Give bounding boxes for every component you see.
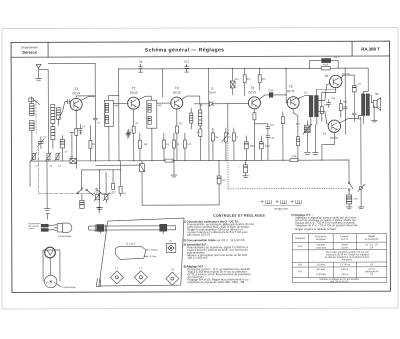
cap C29 — [352, 113, 356, 121]
cap C20 — [266, 124, 270, 132]
svg-text:pile neuve (4,5 V).: pile neuve (4,5 V). — [187, 233, 210, 237]
ground (left) — [44, 161, 50, 210]
wire MF1 to T2 base — [113, 102, 128, 104]
svg-text:170 kHz: 170 kHz — [316, 263, 326, 266]
switch contacts — [86, 189, 104, 196]
svg-text:OC71: OC71 — [287, 89, 295, 93]
svg-text:Fond Rouge: Fond Rouge — [58, 235, 72, 238]
top rail (main) — [119, 67, 368, 70]
svg-text:1 1 700 m: 1 1 700 m — [340, 263, 351, 266]
trimmer C1 — [31, 153, 37, 161]
resistor R9 — [162, 133, 165, 161]
keyhole plate — [115, 246, 148, 259]
resistor R5 — [119, 186, 122, 193]
MF3 transformer — [190, 96, 202, 129]
cap C26 — [327, 100, 331, 108]
svg-text:du C.V.: du C.V. — [341, 238, 349, 241]
wire T6 base from driver — [318, 84, 331, 101]
svg-text:Position PO: Position PO — [275, 208, 288, 211]
svg-text:C12: C12 — [184, 60, 189, 64]
on/off switch S2 — [306, 160, 353, 195]
wire T7 base — [318, 112, 329, 125]
transistor T6 — [329, 75, 341, 87]
wire T3 collector — [181, 96, 191, 100]
electrolytic C22 — [259, 136, 263, 161]
wire T4 emitter — [253, 109, 255, 160]
wire: vertical x95.5 — [94, 63, 96, 96]
capacitor C19 — [269, 93, 286, 97]
ground (C24) — [243, 176, 249, 178]
wire T6 emitter — [322, 87, 336, 106]
svg-text:C8: C8 — [139, 60, 143, 64]
electrolytic C24 (below rail) — [244, 160, 248, 176]
connector socket — [29, 98, 40, 105]
transistor T5 — [287, 97, 299, 109]
capacitor C17 — [199, 127, 202, 161]
svg-text:Service: Service — [22, 50, 37, 55]
svg-text:C21: C21 — [250, 144, 255, 148]
diode D — [194, 101, 228, 106]
ferrite antenna coil L1 — [30, 97, 37, 162]
volume potentiometer P — [222, 128, 229, 161]
electrolytic C15 — [80, 194, 84, 209]
feedthrough cap C8 — [139, 64, 143, 72]
resistors row below mid-rail: R6 — [138, 133, 141, 161]
svg-text:Fond Rouge: Fond Rouge — [62, 286, 76, 289]
resistor R3 (T1 emitter) — [75, 128, 78, 135]
svg-text:CONTROLES ET RÉGLAGES: CONTROLES ET RÉGLAGES — [213, 213, 265, 218]
svg-text:Tr1: Tr1 — [304, 91, 308, 95]
cap C10 — [126, 130, 130, 138]
dash-dot gang link vertical — [37, 142, 39, 194]
svg-text:Régler d'après le tableau suiv: Régler d'après le tableau suivant : — [295, 227, 337, 231]
svg-text:CA: CA — [370, 273, 374, 276]
svg-text:OC45: OC45 — [130, 91, 138, 95]
svg-text:T3: T3 — [175, 86, 179, 90]
resistor R12 — [183, 133, 186, 161]
wire T7 collector — [339, 115, 362, 123]
resistor R8 — [211, 128, 214, 161]
svg-text:T1: T1 — [74, 87, 78, 91]
resistor R19 — [296, 137, 299, 146]
svg-text:3Ω: 3Ω — [375, 92, 378, 96]
pointer bracket — [96, 278, 101, 287]
trimmer diamond L8 — [166, 272, 179, 285]
resistor R22 — [320, 107, 323, 122]
main frame — [11, 41, 390, 292]
driver transformer TR1 — [309, 90, 336, 125]
trimmer C3 — [46, 153, 52, 161]
resistor R23 — [339, 100, 342, 118]
trimmer C13 — [103, 193, 109, 203]
transistor T7 — [328, 120, 340, 132]
index tick 2 — [97, 207, 101, 213]
svg-text:maximum de niveau de sortie SM: maximum de niveau de sortie SM - SM1 - S… — [187, 280, 244, 284]
index tick 1 — [46, 214, 50, 220]
svg-text:CA: CA — [370, 246, 374, 249]
svg-text:OC72: OC72 — [330, 136, 338, 140]
svg-text:L5 Noir: L5 Noir — [149, 255, 156, 258]
ground (C28) — [346, 207, 352, 209]
wire vertical x95.5 down to MF1 — [94, 96, 96, 118]
wire T6 collector — [341, 75, 355, 85]
wire T4 base — [228, 103, 249, 105]
potentiometer R24 — [303, 121, 312, 152]
svg-text:Gammes: Gammes — [295, 237, 306, 240]
wire: vertical x286 from rail down — [285, 68, 287, 94]
svg-text:OA70: OA70 — [209, 90, 217, 94]
svg-text:cadran: cadran — [28, 228, 34, 230]
wire TR2 primary top — [364, 90, 368, 92]
wire: T1 top to x95.5 — [76, 96, 95, 99]
cap C4 — [78, 124, 82, 134]
svg-text:au maximum: au maximum — [365, 238, 379, 241]
wire: T2 collector — [138, 96, 151, 100]
cap C5 — [93, 118, 97, 161]
svg-text:2) Consommation totale sur 4,5: 2) Consommation totale sur 4,5 V : 11 à … — [183, 238, 245, 242]
resistor R14 — [243, 69, 246, 96]
pilot lamp — [54, 223, 72, 232]
svg-text:Schéma général — Réglages: Schéma général — Réglages — [145, 47, 225, 53]
svg-text:L4 Blanc: L4 Blanc — [149, 250, 158, 252]
trimmer C6 — [55, 152, 61, 160]
electrolytic C18 — [217, 160, 221, 205]
wire x142 cluster — [139, 161, 144, 172]
svg-text:OC71: OC71 — [248, 90, 256, 94]
band switch wires — [81, 161, 139, 208]
variable capacitor CV2 — [70, 132, 74, 158]
capacitor C30 — [343, 107, 347, 109]
wire T3 emitter — [176, 108, 178, 160]
wire: top-left rail — [48, 62, 95, 64]
wire: left vertical from antenna — [47, 70, 49, 161]
trimmer window L6 — [166, 243, 176, 252]
cord loop — [43, 250, 60, 282]
transistor T3 — [171, 97, 183, 109]
svg-text:G.O.: G.O. — [298, 264, 303, 267]
svg-text:lité) S/1 et 40 CA: lité) S/1 et 40 CA — [330, 280, 348, 283]
middle rail — [30, 159, 290, 162]
wire: x62 bottom — [75, 161, 77, 168]
trimmer diamond L1 — [110, 271, 123, 284]
ground (x174) — [171, 161, 177, 177]
battery B — [261, 200, 302, 205]
wire: vertical x163 (T3 feed) — [162, 69, 164, 97]
wire: T1 emitter down — [75, 110, 77, 161]
resistor R10 — [175, 126, 178, 133]
svg-text:R16: R16 — [292, 154, 297, 158]
svg-text:1 300 kHz: 1 300 kHz — [315, 273, 327, 276]
wire: T2 emitter down — [133, 109, 135, 161]
wire: vertical x345.5 — [344, 68, 346, 134]
speaker — [369, 95, 380, 120]
dial rod — [89, 224, 176, 234]
wire T1 base lead — [58, 102, 64, 120]
svg-text:T5: T5 — [289, 85, 293, 89]
wire T5 collector to driver transformer — [298, 96, 310, 99]
wire T7 emitter — [322, 132, 335, 160]
wire: bottom left long — [29, 161, 31, 186]
svg-text:500 m: 500 m — [342, 268, 349, 271]
svg-text:T7: T7 — [323, 132, 327, 136]
svg-text:100 à 1 000 mV.: 100 à 1 000 mV. — [187, 256, 208, 260]
resistor R4 — [89, 125, 92, 161]
svg-text:T4: T4 — [250, 86, 254, 90]
ground (switch area) — [96, 208, 102, 210]
output transformer TR2 — [362, 91, 370, 123]
svg-text:R18: R18 — [323, 63, 328, 67]
transistor T4 — [248, 97, 260, 109]
wire T4 collector to C19 — [259, 95, 269, 99]
svg-text:602 kHz: 602 kHz — [316, 268, 326, 271]
electrolytic C28 — [347, 195, 352, 207]
capacitor C16 (hanging, hatched) — [230, 69, 235, 95]
dash-dot gang link horizontal — [39, 192, 113, 194]
wire: vertical x119 (T2 collector feed) — [118, 69, 120, 161]
ground (antenna) — [36, 75, 42, 81]
svg-text:C L E F: C L E F — [126, 242, 136, 246]
chassis panel — [99, 218, 185, 286]
wire: detector out down x228 — [227, 104, 229, 133]
svg-text:OC45: OC45 — [173, 91, 181, 95]
MF2 transformer — [147, 100, 157, 161]
svg-text:RA 388 T: RA 388 T — [361, 47, 380, 52]
svg-text:P.O.: P.O. — [298, 270, 303, 273]
title bar — [11, 41, 390, 57]
thermistor (X box inline) — [70, 158, 77, 163]
electrolytic C27 — [353, 85, 357, 112]
resistor (hatched) R — [232, 128, 235, 161]
capacitor C31 — [304, 152, 310, 154]
svg-text:llocations.: llocations. — [342, 258, 353, 261]
svg-text:C19: C19 — [268, 88, 273, 92]
wire bottom return — [142, 172, 219, 205]
component value labels — [35, 78, 363, 201]
resistor R7 — [132, 126, 135, 133]
wire T5 emitter — [293, 109, 298, 161]
drive drum — [44, 275, 61, 287]
svg-text:200 m: 200 m — [342, 273, 349, 276]
resistor R14b — [112, 183, 115, 189]
pot-switch link dotted — [227, 143, 229, 189]
junction dots — [46, 68, 346, 171]
svg-text:ouvert: ouvert — [341, 246, 348, 249]
oscillator coil L2 — [51, 104, 61, 148]
table — [292, 233, 387, 282]
wire T5 base — [286, 95, 288, 103]
dial cord pulley top — [45, 247, 56, 258]
MF1 transformer — [104, 95, 119, 161]
cap C9 — [127, 129, 131, 137]
antenna — [36, 64, 48, 74]
wire: output secondary down — [360, 117, 362, 185]
svg-text:T2: T2 — [132, 86, 136, 90]
trimmer C11 — [94, 193, 100, 201]
AVC dotted line — [228, 187, 346, 189]
svg-text:C22: C22 — [265, 144, 270, 148]
svg-text:T6: T6 — [324, 74, 328, 78]
resistor R11 — [172, 133, 175, 161]
resistor R15 — [258, 68, 261, 89]
svg-text:1 620 kHz: 1 620 kHz — [315, 247, 327, 250]
wire MF2 to T3 base — [157, 102, 172, 104]
tuning capacitor CV1 — [37, 137, 44, 149]
resistor R16 (horizontal on rail) — [290, 159, 306, 162]
resistor R16b on rail — [321, 67, 330, 70]
legend text — [28, 222, 41, 230]
transistor T2 — [128, 97, 140, 109]
svg-text:du signal: du signal — [316, 238, 326, 241]
cap C7 — [60, 135, 64, 161]
resistor R12b inline — [165, 159, 173, 162]
electrolytic C21 — [244, 136, 248, 161]
resistor R17 (top, dark) — [310, 59, 339, 69]
coupling cap C2 — [65, 99, 71, 103]
resistor R20 — [281, 112, 284, 161]
transistor T1 — [70, 98, 82, 110]
svg-text:OC44: OC44 — [72, 91, 80, 95]
switch S1 — [77, 188, 83, 194]
feedthrough cap C12 — [185, 64, 189, 72]
capacitor C32 — [312, 125, 318, 155]
svg-text:P.O.: P.O. — [298, 245, 303, 248]
svg-text:R6: R6 — [144, 142, 148, 146]
ground (speaker) — [371, 120, 377, 122]
tone switch — [358, 185, 365, 207]
ground (tone switch) — [358, 207, 364, 209]
cap C23 pair — [266, 133, 270, 161]
connector blocks — [41, 224, 48, 231]
wire: T1 collector up-right — [81, 96, 96, 100]
resistor R (T4 emitter) — [253, 113, 256, 120]
wire: vertical x209 — [208, 69, 210, 161]
svg-text:R17: R17 — [334, 55, 339, 59]
trimmer diamond L7 — [134, 271, 147, 284]
